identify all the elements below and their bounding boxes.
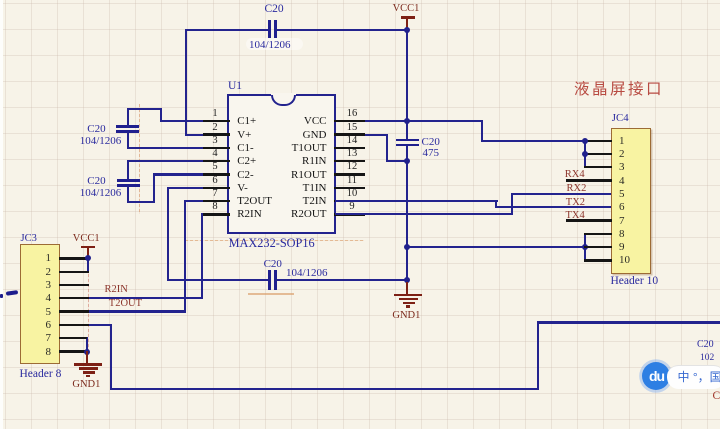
JC4 pin number 7 [619,216,625,227]
wire: cap2 bottom jog down [127,186,129,203]
JC4 pin stub 4 [566,179,612,181]
junction dot pin16/VCC [404,118,410,124]
JC3 pin stub 4 [59,297,90,299]
wire: VCC step vertical x=482 [481,120,483,142]
wire: top bus from V+ corner to VCC junction (left of C20) [185,29,270,31]
pin stub 9 [334,213,364,215]
pin stub 6 [203,187,230,189]
JC4 pin stub 10 [584,259,612,261]
wire: V+ horizontal into pin 2 [185,134,230,136]
IC notch [271,93,296,96]
junction dot JC4 pin1 [582,138,588,144]
label MAX232-SOP16 [229,238,315,249]
JC3 pin stub 2 [59,271,90,273]
wire: cap1 top horizontal jog [127,108,163,110]
pin stub 10 [334,200,364,202]
label GND1 at JC3 [72,380,100,390]
pin stub 12 [334,173,364,175]
wire: pin15 GND jog horizontal [335,134,388,136]
wire: cap2 jog horizontal [127,201,155,203]
net label RX2 [567,184,587,194]
JC3 pin stub 8 [59,350,90,352]
value 104/1206 (bottom capacitor) [286,268,328,279]
label VCC1 at JC3 [73,234,100,244]
JC4 pin number 8 [619,229,625,240]
pin stub 16 [334,120,364,122]
pin number 14 [339,136,365,146]
JC4 pin stub 7 [566,219,612,221]
wire: right edge horizontal y=322 [537,321,720,323]
header JC3 box [20,244,60,364]
pin name T2OUT [237,195,272,207]
pin name C2- [237,169,254,181]
JC4 pin number 4 [619,176,625,187]
capacitor C20 bottom (104/1206) plates [268,270,271,290]
JC3 pin stub 1 [59,257,90,259]
wire: R2IN horizontal from pin 8 [201,213,230,215]
pin stub 2 [203,133,230,135]
pin number 3 [202,136,228,146]
JC3 pin stub 3 [59,284,90,286]
JC4 pin stub 3 [584,166,612,168]
wire: top bus right of C20 to VCC junction [276,29,408,31]
wire: JC3 pins7-8 GND tie [86,337,88,353]
wire: JC4 pins8-10 vertical tie x=585 [584,233,586,262]
wire: VCC horizontal to JC4 pin1 column [481,140,586,142]
watermark chinese text [678,371,720,384]
junction dot bottom cap wire at main vertical [404,277,410,283]
value 102 right edge [700,353,714,364]
guide line horizontal under bottom capacitor [248,293,294,294]
wire: cap2 top to pin 4 [127,160,129,180]
white blob behind top cap value [246,38,303,50]
JC3 pin number 1 [25,253,51,264]
label Header 8 [20,369,62,380]
label C20 (bottom capacitor) [264,259,282,270]
wire: pin 4 C2+ horizontal [127,160,229,162]
label JC4 [612,113,629,124]
wire: cap1 bottom to pin 3 [127,132,129,150]
junction dot JC4 pin2 [582,151,588,157]
wire: JC4 pins1-3 vertical tie x=585 [584,140,586,169]
watermark baidu circle [642,362,671,391]
pin number 5 [202,162,228,172]
wire: JC3 pin6 horizontal [60,324,112,326]
JC3 pin number 3 [25,280,51,291]
wire: T2IN pin10 long horizontal [335,200,498,202]
power VCC1 symbol at JC3 [81,246,95,249]
pin name T1IN [246,182,327,194]
red C fragment bottom right [713,391,720,401]
pin number 10 [339,189,365,199]
label JC3 [21,233,37,244]
JC3 pin stub 5 [59,310,90,312]
JC4 pin stub 1 [584,140,612,142]
pin name R1IN [246,155,327,167]
label VCC1 top [393,4,420,14]
wire: jog down to pin 1 [160,108,162,122]
JC4 pin stub 8 [584,233,612,235]
value 104/1206 (lower-left capacitor) [80,188,122,199]
pin stub 15 [334,133,364,135]
JC3 pin stub 7 [59,337,88,339]
wire: pin 5 C2- horizontal [153,173,230,175]
junction dot GND/JC4 line at main vertical [404,244,410,250]
pin stub 11 [334,187,364,189]
wire: T2IN jog down x=496 [495,200,497,208]
net label RX4 [565,170,585,180]
label C20 right edge [697,339,714,350]
pin stub 7 [203,200,230,202]
wire: bottom cap wire left segment (V- to cap) [167,279,268,281]
white left edge strip [0,0,3,429]
pin number 4 [202,149,228,159]
wire: bottom long horizontal y=389 [110,388,539,390]
junction dot at VCC1 top [404,27,410,33]
pin stub 4 [203,160,230,162]
wire: JC3 pins1-2 VCC tie [87,257,89,273]
wire: pin16 VCC to main vertical and on to JC4 step [335,120,482,122]
pin name C1+ [237,115,256,127]
pin number 9 [339,202,365,212]
pin stub 1 [203,120,230,122]
pin number 15 [339,123,365,133]
label C20 (top capacitor) [265,4,284,15]
label C20 (475 capacitor) [422,137,440,148]
label C20 (upper-left capacitor) [87,124,105,135]
pin name GND [246,129,327,141]
wire: main vertical VCC segment (above C20 475) [406,29,408,140]
label GND1 main [392,311,420,321]
wire: JC3 pin6 vertical x=111 [110,324,112,390]
JC4 pin number 5 [619,189,625,200]
JC4 pin number 3 [619,162,625,173]
JC3 pin stub 6 [59,324,90,326]
value 104/1206 (top capacitor) [249,40,291,51]
pin name VCC [246,115,327,127]
pin number 2 [202,123,228,133]
wire: T2OUT horizontal to JC3 pin 5 [60,310,186,312]
wire: cap1 top vertical [127,108,129,127]
value 104/1206 (upper-left capacitor) [80,136,122,147]
wire: V- horizontal from pin 6 [167,187,229,189]
wire: bottom right vertical x=538 [537,321,539,389]
JC4 pin number 10 [619,255,630,266]
pin name V+ [237,129,251,141]
pin stub 14 [334,147,364,149]
watermark pill [667,365,720,389]
wire: pin15 GND jog vertical x=387 [386,134,388,163]
JC4 pin number 1 [619,136,625,147]
net label TX4 [566,211,585,221]
JC3 pin number 2 [25,267,51,278]
wire: pin15 GND jog into main vertical [386,160,408,162]
wire: T2IN to JC4 pin 6 [495,206,611,208]
pin stub 13 [334,160,364,162]
title 液晶屏接口 [574,82,664,98]
wire: main vertical GND segment (below C20 475) [406,146,408,284]
wire: bottom cap wire right segment (cap to GND) [277,279,408,281]
wire: R2OUT pin9 long horizontal [335,213,513,215]
pin number 12 [339,162,365,172]
pin stub 5 [203,173,230,175]
ground GND1 main symbol [406,282,408,295]
pin stub 8 [203,213,230,215]
JC4 pin number 6 [619,202,625,213]
guide line horizontal above MAX232 label [185,240,364,241]
wire: R2IN horizontal to JC3 pin 4 [60,297,203,299]
wire: R2IN vertical x=202 [201,213,203,299]
pin number 1 [202,109,228,119]
net label R2IN [105,285,128,295]
blue dash fragment at left edge [0,294,3,298]
junction dot JC3 pin1 [85,255,91,261]
pin name T1OUT [246,142,327,154]
pin name R2IN [237,208,261,220]
power VCC1 symbol top [401,16,415,19]
pin name V- [237,182,248,194]
pin number 6 [202,176,228,186]
capacitor C20 upper-left plates [116,125,139,128]
junction dot JC3 pin8 [84,349,90,355]
pin name T2IN [246,195,327,207]
wire: cap2 jog vertical up to pin 5 [153,173,155,203]
junction dot at JC4 pin9 tie [582,244,588,250]
capacitor C20 lower-left plates [117,179,140,182]
wire: R2OUT to JC4 pin 5 [511,193,612,195]
pin stub 3 [203,147,230,149]
JC4 pin number 2 [619,149,625,160]
wire: GND to JC4 pins8-10 horizontal y=247 [406,246,586,248]
JC3 pin number 5 [25,307,51,318]
JC3 pin number 8 [25,347,51,358]
label C20 (lower-left capacitor) [87,176,105,187]
JC4 pin stub 9 [584,246,612,248]
pin number 7 [202,189,228,199]
wire: T2OUT vertical x=185 [184,200,186,313]
pin number 16 [339,109,365,119]
watermark du text [645,369,668,384]
pin number 8 [202,202,228,212]
net label T2OUT [109,299,142,309]
label Header 10 [611,276,659,287]
wire: V- vertical down to bottom cap [167,187,169,282]
pin number 13 [339,149,365,159]
op-amp/IC U1 MAX232 body [227,94,336,234]
header JC4 box [611,128,651,274]
pin name R1OUT [246,169,327,181]
JC3 pin number 7 [25,333,51,344]
wire: V+ vertical from top bus down to pin 2 [185,29,187,136]
pin name R2OUT [246,208,327,220]
wire: T2OUT horizontal from pin 7 [184,200,230,202]
JC4 pin number 9 [619,242,625,253]
net label TX2 [566,198,585,208]
pin number 11 [339,176,365,186]
wire: pin 3 C1- horizontal [127,147,230,149]
wire: pin 1 C1+ horizontal [160,120,229,122]
ground GND1 symbol at JC3 [86,351,88,364]
capacitor C20 475 plates [396,139,419,142]
pin name C2+ [237,155,256,167]
label U1 [228,81,242,92]
pin name C1- [237,142,254,154]
guide line vertical through JC3 power column [88,259,89,351]
value 475 [423,148,440,159]
capacitor C20 top (104/1206) plates [268,20,271,38]
wire: R2OUT jog up x=512 [511,193,513,216]
guide line vertical through left capacitors [139,104,140,214]
JC3 pin number 6 [25,320,51,331]
junction dot GND jog [404,158,410,164]
JC4 pin stub 2 [584,153,612,155]
JC3 pin number 4 [25,293,51,304]
